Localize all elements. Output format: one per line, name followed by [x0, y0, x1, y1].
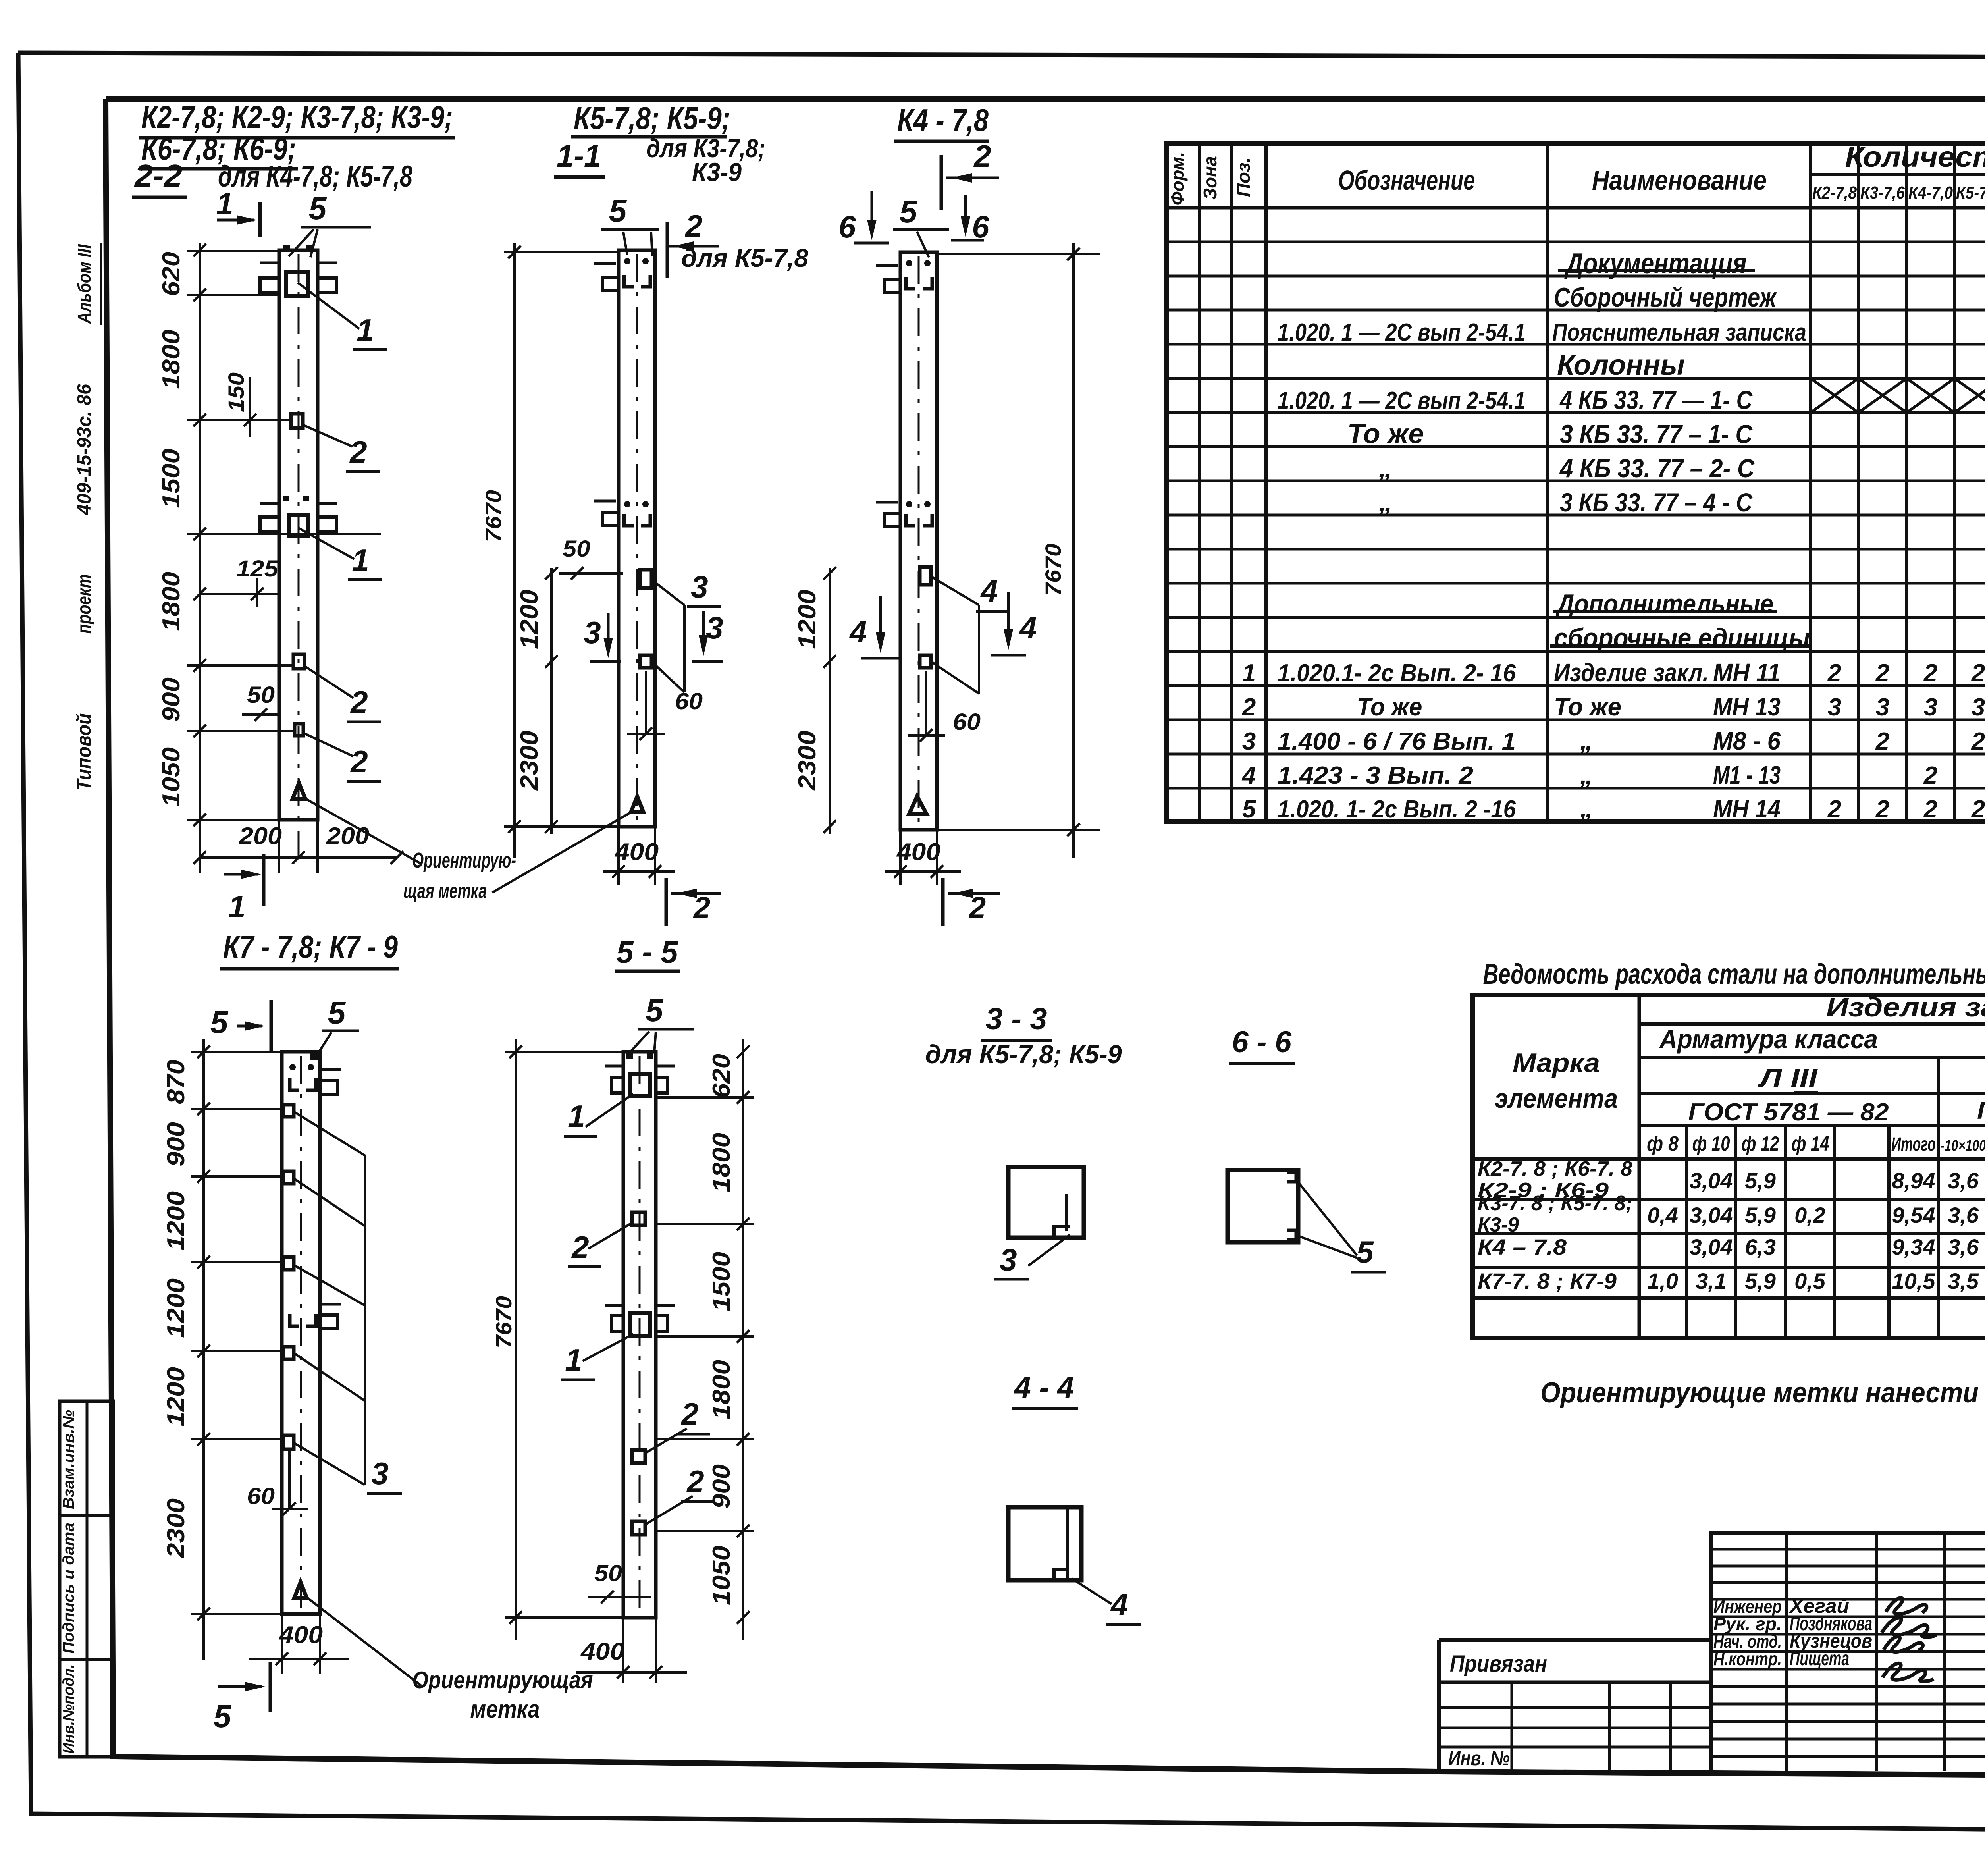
svg-text:150: 150 — [224, 372, 249, 412]
svg-text:Арматура класса: Арматура класса — [1659, 1024, 1878, 1054]
column C orientation triangle — [909, 796, 927, 814]
table1 header bottom line — [1167, 206, 1985, 210]
svg-text:2: 2 — [1971, 796, 1985, 823]
column E bottom extension verticals — [622, 1618, 624, 1683]
column E plate 2 mid — [632, 1450, 645, 1463]
svg-text:1050: 1050 — [158, 747, 185, 807]
svg-text:ф 10: ф 10 — [1692, 1132, 1730, 1155]
svg-text:То же: То же — [1347, 418, 1424, 449]
svg-text:5: 5 — [328, 995, 346, 1030]
column A top corner plates — [283, 245, 290, 252]
column A embedded plate MN11 mid — [289, 515, 308, 536]
svg-text:К7-7. 8 ; К7-9: К7-7. 8 ; К7-9 — [1478, 1269, 1617, 1294]
column B section marker 2 top — [666, 222, 669, 278]
column B section marker 2 bottom — [665, 878, 668, 926]
svg-text:Поз.: Поз. — [1233, 157, 1254, 197]
svg-text:Марка: Марка — [1513, 1048, 1600, 1078]
svg-text:6 - 6: 6 - 6 — [1232, 1025, 1292, 1059]
column C body — [900, 252, 937, 830]
svg-text:ф 14: ф 14 — [1792, 1132, 1829, 1155]
svg-text:Инв. №: Инв. № — [1448, 1747, 1510, 1770]
svg-text:3,6: 3,6 — [1948, 1234, 1979, 1259]
column C section marker 2 bottom — [941, 878, 945, 926]
svg-text:Подпись и дата: Подпись и дата — [60, 1523, 77, 1654]
svg-text:5: 5 — [1356, 1234, 1374, 1269]
svg-text:1.020. 1 — 2С вып 2-54.1: 1.020. 1 — 2С вып 2-54.1 — [1278, 387, 1526, 415]
svg-text:3: 3 — [1242, 728, 1256, 755]
svg-text:1,0: 1,0 — [1647, 1269, 1678, 1294]
column C plate 4 lower — [920, 655, 931, 668]
column E leader 2 mid — [645, 1429, 687, 1453]
section 4-4 label 4 — [1072, 1579, 1112, 1604]
column B centerline — [636, 254, 638, 824]
section 6-6 square — [1228, 1170, 1298, 1242]
svg-text:6,3: 6,3 — [1745, 1234, 1776, 1259]
svg-text:0,4: 0,4 — [1647, 1203, 1678, 1228]
svg-text:2: 2 — [693, 891, 710, 925]
svg-text:-10×100: -10×100 — [1941, 1138, 1985, 1154]
svg-text:Ориентирую-: Ориентирую- — [412, 848, 516, 872]
svg-text:Ориентирующая: Ориентирующая — [412, 1667, 593, 1693]
svg-text:409-15-93с. 86: 409-15-93с. 86 — [74, 384, 95, 515]
svg-text:Альбом III: Альбом III — [74, 244, 94, 324]
svg-text:10,5: 10,5 — [1892, 1269, 1936, 1294]
section 3-3 label 3 — [1028, 1235, 1070, 1266]
svg-text:Форм.: Форм. — [1167, 152, 1188, 206]
svg-text:5: 5 — [900, 194, 918, 229]
svg-text:900: 900 — [158, 677, 185, 722]
svg-text:К5-7,8: К5-7,8 — [1956, 183, 1985, 202]
svg-text:М1 - 13: М1 - 13 — [1713, 761, 1781, 789]
column B extension top/bottom — [504, 251, 619, 253]
svg-text:для К4-7,8; К5-7,8: для К4-7,8; К5-7,8 — [218, 160, 413, 193]
svg-text:5: 5 — [1242, 796, 1257, 823]
column E extension top bottom left — [505, 1051, 623, 1053]
svg-text:Обозначение: Обозначение — [1338, 165, 1475, 196]
svg-text:ГОСТ 5781 — 82: ГОСТ 5781 — 82 — [1688, 1099, 1889, 1126]
svg-text:4: 4 — [980, 573, 998, 608]
svg-text:5: 5 — [210, 1005, 229, 1040]
svg-text:0,5: 0,5 — [1794, 1269, 1826, 1294]
column D centerline — [300, 1056, 302, 1610]
column D plate leaders to 3 — [294, 1112, 365, 1155]
column A leader 2 mid — [303, 665, 353, 698]
titleblock bottom heavy line — [1439, 1772, 1985, 1775]
column D orientation triangle — [294, 1582, 307, 1598]
svg-text:5: 5 — [214, 1699, 232, 1734]
svg-text:50: 50 — [247, 682, 275, 708]
svg-text:Изделие закл.: Изделие закл. — [1554, 658, 1709, 687]
table2 outer box — [1473, 995, 1985, 1338]
svg-text:0,2: 0,2 — [1794, 1203, 1825, 1228]
svg-text:1200: 1200 — [162, 1367, 190, 1427]
svg-text:Итого: Итого — [1891, 1134, 1936, 1155]
table1 outer box — [1167, 144, 1985, 821]
svg-text:ф 12: ф 12 — [1742, 1132, 1779, 1155]
svg-text:5 - 5: 5 - 5 — [617, 934, 678, 970]
column A side tabs mid — [260, 517, 279, 532]
column C section marker 2 top — [940, 155, 943, 210]
svg-text:Ориентирующие метки нанест: Ориентирующие метки нанести несмываемой … — [1540, 1377, 1985, 1409]
svg-text:2: 2 — [1923, 659, 1937, 687]
svg-text:4 - 4: 4 - 4 — [1014, 1371, 1074, 1404]
svg-text:1-1: 1-1 — [557, 138, 601, 174]
column D top corner plate — [310, 1052, 318, 1060]
svg-text:200: 200 — [326, 823, 369, 849]
svg-text:2: 2 — [680, 1396, 698, 1431]
svg-text:Изделия закладные: Изделия закладные — [1826, 992, 1985, 1022]
svg-text:4 КБ 33. 77 — 1- С: 4 КБ 33. 77 — 1- С — [1559, 385, 1753, 415]
svg-text:4: 4 — [1241, 762, 1256, 789]
svg-text:1200: 1200 — [516, 590, 543, 649]
svg-text:2: 2 — [686, 1464, 704, 1499]
svg-text:1200: 1200 — [794, 590, 821, 649]
column E leader 2 lower — [645, 1496, 693, 1525]
svg-text:Взам.инв.№: Взам.инв.№ — [60, 1410, 77, 1509]
column E leader 1 top — [586, 1094, 633, 1127]
svg-text:2: 2 — [1875, 728, 1889, 755]
svg-text:5,9: 5,9 — [1745, 1168, 1776, 1193]
svg-text:К7 - 7,8; К7 - 9: К7 - 7,8; К7 - 9 — [223, 929, 398, 964]
column B dim line 7670 — [513, 243, 516, 858]
column C mid bracket marks — [906, 514, 915, 526]
svg-text:2: 2 — [973, 139, 991, 174]
svg-text:Инв.№подл.: Инв.№подл. — [60, 1664, 77, 1754]
svg-text:1: 1 — [565, 1342, 582, 1377]
svg-text:Типовой: Типовой — [73, 713, 95, 791]
svg-text:2: 2 — [350, 684, 368, 719]
column D orientation leader — [308, 1598, 421, 1685]
column E plate MN11 mid — [630, 1313, 650, 1336]
svg-text:1: 1 — [568, 1099, 585, 1134]
column C left dim line 1200 2300 — [829, 568, 831, 834]
svg-text:метка: метка — [470, 1696, 540, 1723]
svg-text:1500: 1500 — [708, 1252, 735, 1311]
svg-text:4 КБ 33. 77 – 2- С: 4 КБ 33. 77 – 2- С — [1559, 453, 1755, 483]
svg-text:1.423 - 3 Вып. 2: 1.423 - 3 Вып. 2 — [1278, 762, 1473, 789]
svg-text:3 - 3: 3 - 3 — [986, 1002, 1047, 1036]
column A plate 2 upper — [291, 414, 303, 428]
svg-text:2: 2 — [1923, 762, 1937, 789]
section 4-4 square — [1008, 1507, 1081, 1580]
svg-text:620: 620 — [158, 252, 185, 296]
margin stamp table — [60, 1401, 113, 1757]
svg-text:„: „ — [1378, 452, 1393, 483]
svg-text:400: 400 — [580, 1638, 624, 1665]
svg-text:5: 5 — [646, 993, 664, 1028]
column D top detail dots — [289, 1064, 296, 1070]
column D top right tab — [320, 1081, 337, 1094]
svg-text:Дополнительные: Дополнительные — [1555, 589, 1773, 619]
svg-text:3: 3 — [706, 610, 723, 645]
svg-text:9,54: 9,54 — [1892, 1203, 1935, 1228]
svg-text:Ведомость расхода стали на: Ведомость расхода стали на дополнительны… — [1483, 958, 1985, 990]
column A leader 2 upper — [301, 424, 353, 447]
svg-text:3: 3 — [371, 1456, 388, 1491]
column C top bracket marks — [906, 277, 915, 289]
svg-text:То же: То же — [1357, 692, 1422, 721]
column A body — [279, 250, 318, 820]
column A orientation mark leader — [306, 799, 421, 864]
svg-text:5: 5 — [309, 191, 327, 226]
svg-text:Количество на колонну: Количество на колонну — [1845, 141, 1985, 173]
table1 vertical grid lines — [1198, 144, 1201, 821]
svg-text:Колонны: Колонны — [1557, 349, 1685, 381]
column E leader 1 mid — [583, 1334, 633, 1361]
svg-text:для К5-7,8; К5-9: для К5-7,8; К5-9 — [925, 1039, 1122, 1069]
svg-text:„: „ — [1580, 794, 1593, 823]
svg-text:МН 13: МН 13 — [1713, 692, 1781, 721]
svg-text:8,94: 8,94 — [1892, 1168, 1935, 1193]
svg-text:870: 870 — [162, 1060, 190, 1104]
svg-text:1: 1 — [1242, 659, 1256, 687]
table1 row lines — [1167, 241, 1985, 243]
column E dim line 7670 left — [515, 1039, 517, 1640]
svg-text:К2-7,8; К2-9; К3-7,8; К3-9;: К2-7,8; К2-9; К3-7,8; К3-9; — [141, 99, 453, 135]
svg-text:То же: То же — [1554, 692, 1621, 721]
svg-text:1200: 1200 — [162, 1278, 190, 1338]
svg-text:1: 1 — [228, 889, 245, 924]
svg-text:Сборочный чертеж: Сборочный чертеж — [1554, 282, 1777, 312]
svg-text:3: 3 — [1876, 694, 1889, 721]
svg-text:сборочные единицы: сборочные единицы — [1554, 623, 1810, 653]
column C plate 4 upper — [920, 567, 931, 585]
column D bottom extension verticals — [281, 1614, 283, 1674]
svg-text:400: 400 — [279, 1621, 323, 1648]
svg-text:1200: 1200 — [162, 1191, 190, 1251]
svg-text:для К5-7,8: для К5-7,8 — [681, 244, 808, 272]
column E plate 2 lower — [632, 1521, 645, 1535]
column A leader 1 mid — [299, 528, 354, 559]
column C extension top/bottom right — [937, 253, 1100, 255]
column E side tabs mid — [611, 1315, 623, 1331]
svg-text:3: 3 — [1972, 694, 1985, 721]
column E right extension lines — [656, 1096, 754, 1099]
svg-text:1.020. 1- 2с Вып. 2 -16: 1.020. 1- 2с Вып. 2 -16 — [1278, 796, 1516, 823]
svg-text:Привязан: Привязан — [1450, 1651, 1547, 1677]
column B top detail dots — [624, 258, 630, 264]
svg-text:3,6: 3,6 — [1948, 1168, 1979, 1193]
column C top left tab — [884, 280, 900, 292]
svg-text:2: 2 — [1923, 796, 1937, 823]
svg-text:1: 1 — [216, 186, 233, 221]
column E body — [623, 1052, 656, 1618]
svg-text:1800: 1800 — [708, 1360, 735, 1419]
column B top bracket marks — [624, 275, 634, 287]
svg-text:2: 2 — [1242, 694, 1256, 721]
svg-text:3: 3 — [691, 569, 708, 604]
column B bottom extension verticals — [617, 827, 620, 885]
table1 quantity spanner line — [1811, 173, 1985, 176]
svg-text:60: 60 — [953, 709, 981, 735]
svg-text:ГОСТ 103 – 76: ГОСТ 103 – 76 — [1977, 1097, 1985, 1124]
column E plate MN11 top — [630, 1074, 650, 1096]
svg-text:2: 2 — [1971, 728, 1985, 755]
svg-text:1: 1 — [357, 312, 374, 347]
titleblock signatures squiggles — [1886, 1598, 1927, 1614]
svg-text:4: 4 — [1110, 1587, 1128, 1622]
column A bottom extension verticals — [278, 820, 280, 873]
column A section marker 1 bottom — [224, 873, 258, 876]
svg-text:2-2: 2-2 — [134, 158, 182, 193]
svg-text:1800: 1800 — [158, 572, 185, 631]
svg-text:2: 2 — [1875, 659, 1889, 687]
svg-text:3: 3 — [1924, 694, 1937, 721]
svg-text:200: 200 — [239, 823, 282, 849]
column C top detail dots — [906, 260, 912, 266]
svg-text:4: 4 — [849, 614, 867, 649]
column C leader 4 — [931, 576, 979, 605]
svg-text:2: 2 — [349, 434, 367, 469]
column B body — [619, 250, 655, 827]
svg-text:„: „ — [1378, 486, 1393, 517]
svg-text:60: 60 — [247, 1483, 275, 1509]
column D mid right tab — [320, 1315, 337, 1328]
column B plate 3 lower — [640, 655, 651, 668]
column E plate 2 upper — [632, 1212, 645, 1225]
column D extension lines — [191, 1051, 282, 1053]
column C mid left tab — [884, 514, 900, 526]
svg-text:2: 2 — [1971, 659, 1985, 687]
svg-text:МН 14: МН 14 — [1713, 794, 1781, 823]
column D section marker 5 bottom — [218, 1685, 262, 1688]
svg-text:900: 900 — [162, 1122, 190, 1166]
column B mid bracket marks — [624, 514, 634, 526]
column D dim line — [202, 1039, 205, 1660]
svg-text:1800: 1800 — [708, 1133, 735, 1192]
column A plate 2 mid — [293, 654, 304, 669]
svg-text:2: 2 — [1827, 796, 1841, 823]
svg-text:3 КБ 33. 77 – 4 - С: 3 КБ 33. 77 – 4 - С — [1560, 488, 1753, 517]
svg-text:2300: 2300 — [794, 731, 821, 791]
column C centerline — [918, 256, 920, 827]
column C mid detail dots — [906, 501, 912, 507]
svg-text:3,04: 3,04 — [1690, 1168, 1733, 1193]
svg-text:2: 2 — [350, 744, 368, 779]
column B left dim line 1200 2300 — [550, 568, 553, 834]
column A leader 2 lower — [303, 733, 353, 756]
column D plates row — [283, 1105, 294, 1117]
svg-text:Л III: Л III — [1758, 1063, 1818, 1093]
column A orientation mark triangle — [293, 783, 305, 799]
svg-text:2: 2 — [1827, 659, 1841, 687]
svg-text:Зона: Зона — [1200, 156, 1220, 200]
svg-text:5: 5 — [609, 193, 627, 228]
column B orientation triangle — [631, 796, 644, 812]
svg-text:3,04: 3,04 — [1690, 1203, 1733, 1228]
svg-text:3,5: 3,5 — [1948, 1269, 1979, 1294]
column D dim 60 — [288, 1450, 291, 1510]
svg-text:„: „ — [1580, 727, 1593, 755]
svg-text:1: 1 — [352, 543, 369, 578]
svg-text:ф 8: ф 8 — [1647, 1132, 1679, 1155]
svg-text:1.400 - 6 / 76 Вып. 1: 1.400 - 6 / 76 Вып. 1 — [1278, 728, 1516, 755]
svg-text:„: „ — [1580, 761, 1593, 789]
section 3-3 square — [1008, 1167, 1084, 1238]
column A bottom dim 200 200 — [200, 856, 397, 859]
svg-text:5,9: 5,9 — [1745, 1269, 1776, 1294]
svg-text:1.020.1- 2с Вып. 2- 16: 1.020.1- 2с Вып. 2- 16 — [1278, 659, 1516, 687]
svg-text:Пищета: Пищета — [1790, 1647, 1849, 1670]
column E leader 2 upper — [588, 1223, 632, 1249]
column B leader 3 — [651, 580, 684, 605]
svg-text:К3-9: К3-9 — [1478, 1213, 1519, 1236]
column E side tabs top — [611, 1077, 623, 1093]
titleblock privyazan cell — [1437, 1640, 1441, 1772]
svg-text:7670: 7670 — [491, 1296, 516, 1348]
svg-text:2300: 2300 — [162, 1498, 190, 1558]
column D top bracket marks — [290, 1078, 299, 1090]
svg-text:щая метка: щая метка — [403, 879, 487, 903]
column D body — [282, 1052, 320, 1614]
svg-text:МН 11: МН 11 — [1713, 658, 1781, 687]
svg-text:7670: 7670 — [1041, 544, 1066, 596]
svg-text:Наименование: Наименование — [1592, 165, 1767, 196]
column B mid left tab — [602, 513, 619, 525]
svg-text:1.020. 1 — 2С вып 2-54.1: 1.020. 1 — 2С вып 2-54.1 — [1278, 319, 1526, 346]
column B dim 60 — [645, 671, 647, 735]
svg-text:1500: 1500 — [158, 449, 185, 508]
table2 horizontal lines — [1639, 1022, 1985, 1026]
svg-text:Н.контр.: Н.контр. — [1713, 1648, 1782, 1669]
svg-text:К2-7,8: К2-7,8 — [1812, 183, 1857, 202]
column A plate 2 lower — [295, 724, 303, 736]
svg-text:400: 400 — [615, 839, 659, 865]
svg-text:К3-7. 8 ; К5-7. 8;: К3-7. 8 ; К5-7. 8; — [1478, 1192, 1632, 1215]
section 6-6 corner plates — [1287, 1172, 1296, 1182]
svg-text:К4 - 7,8: К4 - 7,8 — [897, 102, 989, 138]
column D mid bracket marks — [290, 1314, 299, 1326]
column B plate 3 upper — [640, 570, 651, 588]
svg-text:3,1: 3,1 — [1696, 1269, 1727, 1294]
column A extension lines — [187, 250, 278, 252]
svg-text:К5-7,8; К5-9;: К5-7,8; К5-9; — [574, 100, 730, 136]
table2 vertical lines — [1638, 995, 1641, 1338]
svg-text:5,9: 5,9 — [1745, 1203, 1776, 1228]
svg-text:проект: проект — [74, 574, 95, 634]
column C dim line 7670 right — [1072, 243, 1075, 858]
table1 X marks row1 — [1811, 378, 1858, 413]
svg-text:Пояснительная записка: Пояснительная записка — [1552, 319, 1806, 346]
column E centerline — [639, 1056, 641, 1614]
svg-text:К2-7. 8 ; К6-7. 8: К2-7. 8 ; К6-7. 8 — [1478, 1157, 1632, 1180]
column B orientation leader — [492, 812, 631, 893]
svg-text:3,6: 3,6 — [1948, 1203, 1979, 1228]
svg-text:50: 50 — [563, 536, 590, 562]
svg-text:элемента: элемента — [1495, 1084, 1618, 1114]
titleblock bottom-left grid — [1439, 1706, 1711, 1709]
svg-text:К3-7,6: К3-7,6 — [1860, 183, 1905, 202]
column A embedded plate MN11 top — [286, 272, 308, 296]
svg-text:3: 3 — [584, 615, 601, 650]
svg-text:3 КБ 33. 77 – 1- С: 3 КБ 33. 77 – 1- С — [1560, 419, 1753, 449]
svg-text:620: 620 — [708, 1054, 735, 1098]
svg-text:М8 - 6: М8 - 6 — [1713, 727, 1781, 755]
column E top corner plates — [626, 1053, 633, 1059]
section 6-6 label 5 — [1297, 1181, 1357, 1255]
svg-text:2300: 2300 — [516, 731, 543, 791]
column E right dim line — [742, 1039, 744, 1640]
column A side tabs top — [260, 278, 279, 293]
svg-text:2: 2 — [684, 208, 702, 243]
svg-text:6: 6 — [838, 209, 856, 244]
svg-text:1050: 1050 — [708, 1546, 735, 1605]
svg-text:2: 2 — [571, 1230, 589, 1265]
titleblock small grid — [1711, 1533, 1985, 1774]
svg-text:2: 2 — [968, 891, 986, 925]
svg-text:3: 3 — [1000, 1242, 1017, 1277]
svg-text:4: 4 — [1019, 610, 1037, 645]
